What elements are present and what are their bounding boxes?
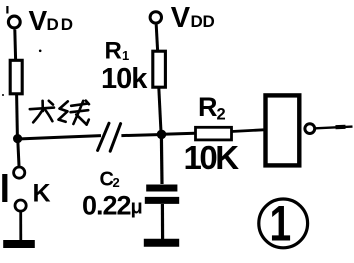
scan speck <box>39 50 42 53</box>
node B <box>157 130 167 140</box>
svg-text:μ: μ <box>131 197 143 219</box>
resistor R2 <box>196 127 232 140</box>
svg-text:10k: 10k <box>101 63 148 95</box>
resistor R1 <box>153 51 166 87</box>
figure number 1 circle <box>259 199 308 248</box>
svg-text:DD: DD <box>191 12 215 31</box>
inverter U1 box <box>266 95 300 165</box>
switch K bottom contact <box>15 200 26 211</box>
ground C2 <box>144 239 179 247</box>
capacitor C2 bottom plate <box>145 197 179 204</box>
wire <box>15 94 19 137</box>
svg-text:1: 1 <box>122 48 129 63</box>
svg-text:2: 2 <box>217 106 226 124</box>
svg-text:K: K <box>33 180 51 208</box>
svg-text:10K: 10K <box>184 139 240 176</box>
wire long line right segment <box>121 135 158 136</box>
wire <box>159 88 161 133</box>
svg-text:DD: DD <box>47 15 76 34</box>
svg-text:V: V <box>29 5 48 36</box>
switch K actuator bar <box>2 174 7 202</box>
terminal VDD left <box>8 16 20 28</box>
svg-text:R: R <box>198 92 218 122</box>
inverter output bubble <box>305 124 315 134</box>
svg-text:2: 2 <box>113 175 120 190</box>
wire <box>156 25 157 51</box>
svg-text:0.22: 0.22 <box>82 191 131 221</box>
break marks // <box>98 123 109 150</box>
wire R2 to inverter <box>232 130 264 132</box>
wire node B down to C2 <box>160 136 164 184</box>
ground left <box>3 240 35 248</box>
wire <box>13 30 17 60</box>
wire C2 to ground <box>161 204 164 239</box>
wire node B to R2 <box>163 133 195 134</box>
switch K top contact <box>14 167 25 178</box>
svg-text:1: 1 <box>270 195 292 252</box>
capacitor C2 top plate <box>146 185 177 192</box>
label 长线 <box>30 101 89 125</box>
wire long line left segment <box>18 136 101 139</box>
terminal VDD middle <box>150 12 161 23</box>
node A <box>13 134 22 143</box>
svg-text:R: R <box>105 38 122 65</box>
wire output with arrow <box>316 127 353 129</box>
resistor (left pull-up) <box>10 60 22 94</box>
wire switch to ground <box>19 212 22 241</box>
scan speck <box>6 6 8 14</box>
scan speck <box>2 94 4 96</box>
wire node A down to switch <box>18 140 19 166</box>
svg-text:V: V <box>171 2 191 34</box>
